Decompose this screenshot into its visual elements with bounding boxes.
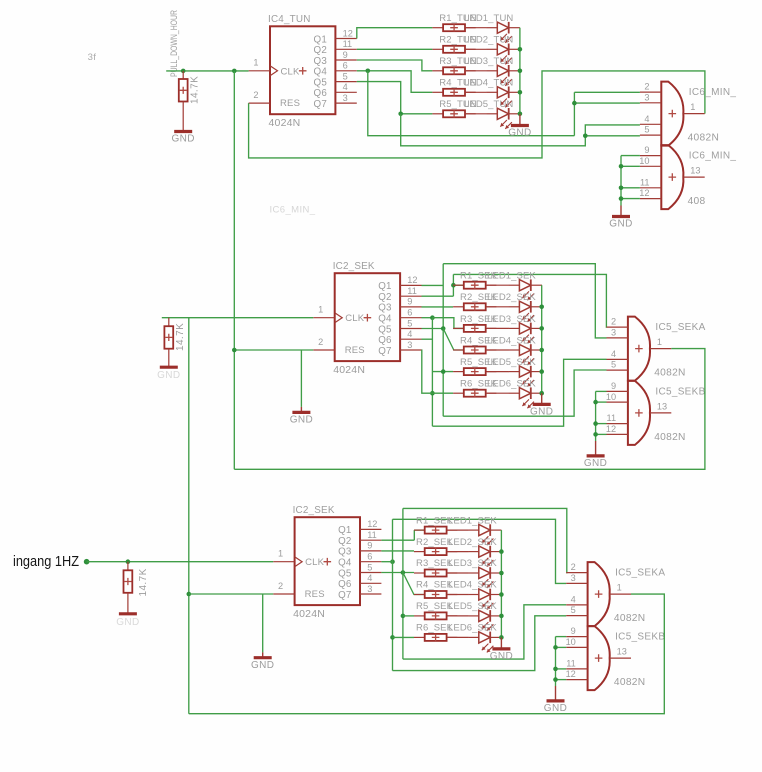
pin 4 (Q6) of IC2_SEK	[360, 582, 381, 584]
pin 2 (RES) of IC2_SEK	[313, 349, 334, 351]
wire RES to GND	[300, 350, 302, 407]
svg-text:408: 408	[688, 196, 706, 207]
resistor R4_SEK	[453, 347, 496, 354]
pin 2 (RES) of IC4_TUN	[249, 102, 270, 104]
junction pins 4-5 tie	[583, 134, 588, 139]
pin 2 (RES) of IC2_SEK	[273, 593, 294, 595]
svg-text:9: 9	[367, 541, 372, 551]
pin 12 of IC6_MIN_B	[640, 198, 661, 200]
wire vertical to gate pins 2,3	[573, 92, 575, 135]
junction pins 2-3 tie	[572, 101, 577, 106]
junction Q4 branch	[430, 315, 435, 320]
svg-text:LED2_TUN: LED2_TUN	[464, 35, 513, 46]
wire LED cathode bus to GND	[519, 28, 521, 114]
junction LED cathode	[539, 305, 544, 310]
wire R5_SEK to LED5_SEK	[487, 371, 509, 373]
svg-text:4: 4	[407, 329, 412, 339]
svg-text:Q5: Q5	[314, 77, 328, 88]
junction R5 row (bottom)	[401, 614, 406, 619]
pin 2 of IC5_SEKA	[607, 326, 628, 328]
pin 1 (CLK) of IC2_SEK	[313, 317, 334, 319]
wire to IC5_SEKA pin 3 (bottom)	[393, 519, 567, 583]
wire R3_SEK to LED3_SEK (bottom)	[447, 572, 468, 574]
svg-text:1: 1	[617, 583, 622, 593]
wire Q6 stub	[422, 338, 433, 340]
LED LED6_SEK	[468, 632, 501, 653]
svg-text:4: 4	[367, 573, 372, 583]
wire diagonal Q5 to R4_SEK	[443, 329, 464, 351]
resistor R2_SEK	[414, 548, 457, 555]
pin 5 of IC5_SEKA_b	[566, 615, 587, 617]
origin cross of IC5_SEKA	[635, 345, 643, 353]
svg-text:1: 1	[278, 548, 283, 558]
wire Q1 to R1_TUN	[357, 28, 433, 39]
LED LED1_SEK	[509, 279, 542, 300]
wire IC5_SEKA output to top CLK (vertical)	[233, 71, 235, 469]
wire gate B input	[596, 401, 607, 403]
wire Q5 to R3_SEK	[381, 572, 414, 574]
wire clock into IC2_SEK CLK	[162, 317, 313, 319]
wire Q5 vertical (bottom)	[402, 508, 404, 659]
svg-text:11: 11	[407, 286, 417, 296]
LED LED4_SEK	[468, 589, 501, 610]
pin 1 (CLK) of IC2_SEK	[273, 561, 294, 563]
svg-text:4: 4	[343, 82, 348, 92]
pin 3 of IC5_SEKA_b	[566, 582, 587, 584]
svg-text:11: 11	[367, 530, 377, 540]
pin 12 (Q1) of IC2_SEK	[400, 284, 421, 286]
wire to RES of bottom IC2_SEK	[189, 593, 273, 595]
svg-text:RES: RES	[280, 98, 300, 109]
svg-text:Q7: Q7	[378, 346, 391, 357]
resistor R1_SEK	[414, 527, 457, 534]
wire gate B input	[621, 165, 640, 167]
junction Q4 branch	[366, 69, 371, 74]
svg-text:9: 9	[644, 145, 649, 155]
svg-text:3: 3	[407, 340, 412, 350]
svg-text:IC6_MIN_: IC6_MIN_	[689, 87, 737, 98]
resistor R4_TUN	[432, 89, 475, 96]
svg-text:9: 9	[571, 626, 576, 636]
ground GND (hours pulldown)	[171, 132, 194, 145]
pin 2 of IC5_SEKA_b	[566, 572, 587, 574]
junction seconds pulldown	[126, 559, 131, 564]
svg-text:1: 1	[690, 102, 695, 112]
pin 11 (Q2) of IC2_SEK	[360, 539, 381, 541]
svg-text:5: 5	[343, 71, 348, 81]
svg-text:3: 3	[571, 573, 576, 583]
wire R1_SEK to LED1_SEK	[487, 284, 509, 286]
svg-text:LED2_SEK: LED2_SEK	[487, 292, 536, 303]
wire IC6 gate B inputs to GND	[620, 156, 622, 206]
junction reset branch (bottom)	[187, 592, 192, 597]
wire to IC5_SEKA pin 5	[443, 370, 606, 416]
origin cross of IC2_SEK	[324, 558, 332, 566]
junction LED cathode	[499, 571, 504, 576]
svg-text:4: 4	[611, 349, 616, 359]
svg-text:3: 3	[611, 328, 616, 338]
svg-text:9: 9	[407, 297, 412, 307]
svg-text:GND: GND	[490, 651, 513, 662]
pin 5 (Q5) of IC2_SEK	[360, 572, 381, 574]
svg-text:LED3_TUN: LED3_TUN	[464, 56, 513, 67]
pin 9 of IC5_SEKB	[607, 390, 628, 392]
junction LED cathode	[518, 90, 523, 95]
pin 1 (output) of IC5_SEKA	[650, 348, 671, 350]
AND gate IC5_SEKA_b (4082N)	[588, 562, 610, 626]
wire gate B input	[621, 155, 640, 157]
pin 4 of IC5_SEKA_b	[566, 604, 587, 606]
svg-text:Q2: Q2	[378, 292, 391, 303]
pin 2 of IC6_MIN_A	[640, 91, 661, 93]
junction at R6 row (bottom)	[390, 635, 395, 640]
pin 12 of IC5_SEKB_b	[566, 679, 587, 681]
svg-text:12: 12	[639, 188, 649, 198]
wire to IC5_SEKA pin 2 (bottom)	[403, 508, 567, 572]
svg-text:IC6_MIN_: IC6_MIN_	[689, 151, 737, 162]
svg-text:4082N: 4082N	[654, 432, 686, 443]
pin 4 of IC5_SEKA	[607, 358, 628, 360]
LED LED5_TUN	[487, 108, 520, 129]
LED LED5_SEK	[468, 610, 501, 631]
junction Q5/diagonal (bottom)	[401, 570, 406, 575]
svg-text:3f: 3f	[88, 52, 97, 63]
svg-text:GND: GND	[157, 370, 180, 381]
wire to R1_SEK	[453, 284, 463, 286]
pin 10 of IC5_SEKB	[607, 401, 628, 403]
svg-text:6: 6	[367, 552, 372, 562]
svg-text:4082N: 4082N	[614, 677, 646, 688]
origin cross of IC2_SEK	[364, 314, 372, 322]
wire Q2 feed	[381, 539, 414, 541]
svg-text:2: 2	[571, 562, 576, 572]
pin 6 (Q4) of IC2_SEK	[360, 561, 381, 563]
svg-text:GND: GND	[116, 617, 139, 628]
svg-text:LED4_TUN: LED4_TUN	[464, 78, 513, 89]
wire Q4 stub	[422, 317, 433, 319]
junction LED cathode	[499, 549, 504, 554]
junction R1_SEK feed	[451, 283, 456, 288]
resistor R5_TUN	[432, 110, 475, 117]
AND gate IC6_MIN_A (4082N)	[661, 82, 683, 146]
svg-text:4082N: 4082N	[688, 133, 720, 144]
pin 9 of IC5_SEKB_b	[566, 636, 587, 638]
svg-text:2: 2	[318, 337, 323, 347]
junction Q4 branch (bottom)	[390, 559, 395, 564]
svg-text:GND: GND	[290, 415, 313, 426]
wire Q3 to R2_SEK	[422, 306, 454, 308]
wire Q4 vertical down	[431, 318, 433, 427]
svg-text:12: 12	[367, 519, 377, 529]
wire R2_TUN to LED2_TUN	[465, 48, 487, 50]
svg-text:Q4: Q4	[378, 314, 392, 325]
svg-text:Q6: Q6	[314, 88, 328, 99]
LED LED2_SEK	[468, 546, 501, 567]
wire R4_TUN to LED4_TUN	[465, 91, 487, 93]
svg-text:10: 10	[639, 156, 649, 166]
wire IC5_SEKA(bottom) output loop	[189, 594, 665, 714]
wire ingang 1HZ to CLK	[87, 561, 274, 563]
wire gate B input	[596, 433, 607, 435]
svg-text:GND: GND	[171, 134, 194, 145]
svg-text:12: 12	[566, 669, 576, 679]
svg-text:14.7K: 14.7K	[190, 76, 201, 104]
junction LED cathode	[539, 369, 544, 374]
resistor R 14.7K (seconds pulldown)	[124, 562, 133, 613]
svg-text:6: 6	[343, 61, 348, 71]
wire Q7 to R6_SEK	[422, 350, 454, 393]
wire Q2 vertical to R1	[413, 530, 415, 540]
svg-text:12: 12	[606, 424, 616, 434]
pin 9 (Q3) of IC2_SEK	[400, 306, 421, 308]
junction Q5/diagonal	[441, 326, 446, 331]
svg-text:LED5_SEK: LED5_SEK	[487, 357, 536, 368]
wire IC5_SEKA(bottom) output to middle CLK (vertical)	[188, 318, 190, 714]
junction gate B input tie	[619, 186, 624, 191]
wire R4_SEK to LED4_SEK	[487, 349, 509, 351]
ground GND (IC5_SEKB inputs)	[584, 441, 607, 469]
svg-text:LED4_SEK: LED4_SEK	[487, 335, 536, 346]
wire to IC5_SEKA pin 5 (bottom)	[393, 616, 567, 671]
svg-text:Q1: Q1	[378, 281, 391, 292]
wire Q3 to R2_SEK	[381, 550, 414, 552]
svg-text:LED1_TUN: LED1_TUN	[464, 13, 513, 24]
pin 11 of IC5_SEKB	[607, 423, 628, 425]
resistor R3_SEK	[453, 325, 496, 332]
svg-text:4024N: 4024N	[293, 608, 325, 620]
wire Q2 feed	[422, 295, 454, 297]
junction gate B input tie	[593, 400, 598, 405]
svg-text:LED5_TUN: LED5_TUN	[464, 99, 513, 110]
junction LED cathode	[518, 69, 523, 74]
svg-text:10: 10	[606, 392, 616, 402]
wire gate B input (bottom)	[556, 636, 567, 638]
svg-text:GND: GND	[584, 458, 607, 469]
svg-text:IC2_SEK: IC2_SEK	[333, 261, 375, 272]
svg-text:11: 11	[343, 39, 353, 49]
counter IC IC4_TUN (4024N) body	[270, 26, 335, 114]
svg-text:5: 5	[571, 605, 576, 615]
svg-text:Q3: Q3	[378, 303, 392, 314]
resistor R3_TUN	[432, 67, 475, 74]
svg-text:5: 5	[407, 318, 412, 328]
wire IC5_SEKA output to top block clock / reset	[234, 349, 705, 470]
wire Q3 to R3_TUN	[357, 60, 433, 71]
pin 13 (output) of IC5_SEKB	[650, 412, 671, 414]
pin 6 (Q4) of IC4_TUN	[335, 70, 356, 72]
wire diagonal Q5 to R4_SEK	[403, 573, 425, 595]
pin 3 of IC6_MIN_A	[640, 102, 661, 104]
svg-text:IC5_SEKB: IC5_SEKB	[655, 386, 705, 397]
svg-text:Q7: Q7	[338, 590, 351, 601]
svg-text:LED1_SEK: LED1_SEK	[487, 271, 536, 282]
svg-text:CLK: CLK	[345, 313, 365, 324]
wire net PULL_DOWN_HOUR to CLK IC4	[166, 70, 248, 72]
svg-text:IC6_MIN_: IC6_MIN_	[270, 205, 316, 216]
wire vertical Q1/gate feeds	[442, 264, 444, 417]
svg-text:2: 2	[278, 581, 283, 591]
svg-text:12: 12	[407, 275, 417, 285]
svg-text:4: 4	[571, 595, 576, 605]
resistor R1_TUN	[432, 24, 475, 31]
resistor R4_SEK	[414, 591, 457, 598]
svg-text:CLK: CLK	[281, 66, 301, 77]
junction gate B input tie	[593, 432, 598, 437]
junction LED cathode	[499, 592, 504, 597]
origin cross of IC5_SEKB_b	[595, 654, 603, 662]
wire Q4 stub	[381, 561, 392, 563]
wire to IC5_SEKA pin 4	[432, 359, 606, 426]
svg-text:11: 11	[640, 177, 650, 187]
junction LED cathode	[499, 614, 504, 619]
wire Q5 to R5_TUN	[357, 82, 433, 114]
wire R2_SEK to LED2_SEK	[487, 306, 509, 308]
pin 1 (CLK) of IC4_TUN	[249, 70, 270, 72]
svg-text:IC2_SEK: IC2_SEK	[293, 505, 335, 516]
LED LED6_SEK	[509, 387, 542, 408]
svg-text:2: 2	[644, 82, 649, 92]
wire to IC5_SEKA pin 3	[443, 264, 606, 338]
svg-text:IC5_SEKB: IC5_SEKB	[615, 632, 665, 643]
resistor R5_SEK	[453, 368, 496, 375]
svg-text:LED6_SEK: LED6_SEK	[487, 379, 536, 390]
junction at R6 row	[430, 391, 435, 396]
resistor R1_SEK	[453, 282, 496, 289]
svg-text:GND: GND	[544, 703, 567, 714]
ground GND (bottom reset)	[251, 652, 274, 671]
svg-text:GND: GND	[609, 219, 632, 230]
svg-text:14.7K: 14.7K	[175, 323, 186, 351]
wire R1_TUN to LED1_TUN	[465, 27, 487, 29]
AND gate IC6_MIN_B (4082N)	[661, 145, 683, 209]
svg-text:1: 1	[253, 58, 258, 68]
LED LED1_TUN	[487, 22, 520, 43]
pin 9 of IC6_MIN_B	[640, 155, 661, 157]
svg-text:3: 3	[367, 584, 372, 594]
svg-text:5: 5	[367, 562, 372, 572]
wire Q5 to IC6 pin 4	[401, 114, 640, 146]
svg-text:12: 12	[343, 28, 353, 38]
wire to RES of IC2_SEK	[234, 349, 313, 351]
wire to IC5_SEKA pin 4 (bottom)	[403, 605, 566, 659]
svg-text:Q1: Q1	[314, 34, 327, 45]
svg-text:Q2: Q2	[338, 536, 351, 547]
LED LED2_TUN	[487, 44, 520, 65]
origin cross of IC6_MIN_B	[669, 173, 677, 181]
wire gate B input	[596, 390, 607, 392]
svg-text:RES: RES	[345, 345, 365, 356]
pin 5 (Q5) of IC2_SEK	[400, 328, 421, 330]
pin 9 (Q3) of IC4_TUN	[335, 59, 356, 61]
svg-text:5: 5	[644, 125, 649, 135]
svg-text:3: 3	[644, 92, 649, 102]
svg-text:11: 11	[607, 413, 617, 423]
ground GND (top LED bus)	[508, 114, 531, 139]
wire R6_SEK to LED6_SEK (bottom)	[447, 636, 468, 638]
ground GND (bottom LED bus)	[490, 637, 513, 662]
junction at pulldown resistor R_hour	[181, 69, 186, 74]
ground GND (middle LED bus)	[530, 393, 553, 417]
pin 11 of IC5_SEKB_b	[566, 668, 587, 670]
svg-text:14.7K: 14.7K	[138, 568, 149, 596]
svg-text:ingang 1HZ: ingang 1HZ	[13, 553, 79, 570]
svg-text:Q7: Q7	[314, 99, 327, 110]
wire IC5_SEKB inputs to GND (bottom)	[555, 637, 557, 686]
svg-text:Q1: Q1	[338, 525, 351, 536]
pin 13 (output) of IC5_SEKB_b	[610, 657, 631, 659]
counter IC IC2_SEK (4024N) body	[295, 517, 360, 605]
svg-text:3: 3	[343, 93, 348, 103]
svg-text:Q3: Q3	[314, 56, 328, 67]
wire LED cathode bus (middle)	[541, 285, 543, 393]
wire Q2 vertical	[452, 274, 454, 296]
junction gate B input tie (bottom)	[553, 667, 558, 672]
wire Q5 stub	[422, 328, 444, 330]
wire Q4 to IC6 gate inputs 2,3	[368, 71, 575, 136]
svg-text:5: 5	[611, 360, 616, 370]
junction gate B input tie	[619, 164, 624, 169]
origin cross of IC4_TUN	[299, 67, 307, 75]
wire to R1_SEK	[414, 529, 424, 531]
pin 4 (Q6) of IC4_TUN	[335, 91, 356, 93]
svg-text:Q2: Q2	[314, 45, 327, 56]
wire R5_SEK to LED5_SEK (bottom)	[447, 615, 468, 617]
wire to R5_SEK	[432, 371, 453, 373]
svg-text:PULL_DOWN_HOUR: PULL_DOWN_HOUR	[169, 10, 179, 77]
svg-text:13: 13	[690, 166, 700, 176]
wire gate B input (bottom)	[556, 646, 567, 648]
resistor R 14.7K (minutes pulldown)	[164, 318, 173, 367]
ground GND (IC6 unused inputs)	[609, 206, 632, 230]
pin 11 (Q2) of IC4_TUN	[335, 48, 356, 50]
svg-text:2: 2	[611, 317, 616, 327]
ground (minutes pulldown)	[157, 367, 180, 381]
wire LED cathode bus (bottom)	[500, 530, 502, 637]
junction gate B input tie	[593, 421, 598, 426]
wire gate B input (bottom)	[556, 668, 567, 670]
svg-text:9: 9	[343, 50, 348, 60]
origin cross of IC5_SEKB	[635, 409, 643, 417]
wire to IC6 pin 3	[574, 102, 640, 104]
svg-text:IC5_SEKA: IC5_SEKA	[615, 568, 665, 579]
counter IC IC2_SEK (4024N) body	[335, 273, 400, 361]
svg-text:GND: GND	[508, 128, 531, 139]
pin 12 of IC5_SEKB	[607, 433, 628, 435]
wire IC6_MIN_ output 1 to RES of IC4	[249, 71, 705, 158]
wire Q2 to R2_TUN	[357, 48, 433, 50]
AND gate IC5_SEKA (4082N)	[628, 317, 650, 381]
LED LED2_SEK	[509, 301, 542, 322]
pin 5 of IC5_SEKA	[607, 369, 628, 371]
svg-text:Q4: Q4	[338, 558, 352, 569]
wire Q1 feed	[422, 284, 444, 286]
junction reset branch	[232, 348, 237, 353]
wire R4_SEK to LED4_SEK (bottom)	[447, 594, 468, 596]
LED LED4_SEK	[509, 344, 542, 365]
LED LED3_SEK	[468, 567, 501, 588]
wire R3_SEK to LED3_SEK	[487, 327, 509, 329]
svg-text:Q6: Q6	[378, 335, 392, 346]
wire R2_SEK to LED2_SEK (bottom)	[447, 551, 468, 553]
svg-text:4024N: 4024N	[333, 364, 365, 376]
pin 13 (output) of IC6_MIN_B	[683, 176, 704, 178]
junction LED cathode	[499, 635, 504, 640]
pin 4 (Q6) of IC2_SEK	[400, 338, 421, 340]
pin 3 (Q7) of IC2_SEK	[400, 349, 421, 351]
junction gate B input tie (bottom)	[553, 677, 558, 682]
AND gate IC5_SEKB (4082N)	[628, 381, 650, 445]
pin 5 of IC6_MIN_A	[640, 134, 661, 136]
